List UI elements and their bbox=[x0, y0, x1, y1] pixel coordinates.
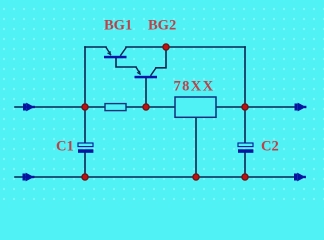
wire: left vertical below C1 bbox=[84, 153, 86, 177]
wire: right vertical drop (top rail to mid rail) bbox=[244, 47, 246, 107]
wire: bottom rail bbox=[15, 176, 295, 178]
wire: BG1 base to BG2 emitter link bbox=[116, 58, 136, 67]
wire: top rail right segment bbox=[126, 46, 245, 48]
svg-text:78XX: 78XX bbox=[174, 78, 215, 94]
wire: BG2 base drop bbox=[145, 78, 147, 107]
junction: 78XX ground pin / bottom rail bbox=[193, 174, 199, 180]
input return port arrow (bottom rail, pointing right) bbox=[23, 173, 35, 182]
svg-text:C2: C2 bbox=[261, 139, 279, 155]
capacitor C2 bbox=[238, 143, 253, 153]
wire: right vertical below C2 bbox=[244, 153, 246, 177]
junction: input rail / C1 branch on middle rail bbox=[82, 104, 88, 110]
svg-text:C1: C1 bbox=[56, 138, 74, 154]
output return port arrow (bottom rail, pointing right) bbox=[294, 173, 306, 182]
wire: right vertical (mid rail to C2) bbox=[244, 107, 246, 143]
wire: middle rail right segment bbox=[216, 106, 296, 108]
wire: left vertical drop (input rail to C1) bbox=[84, 47, 86, 143]
junction: C1 / bottom rail bbox=[82, 174, 88, 180]
junction: C2 / bottom rail bbox=[242, 174, 248, 180]
junction: right vertical / middle rail bbox=[242, 104, 248, 110]
transistor BG2 bbox=[135, 67, 158, 78]
regulator U1 78XX box bbox=[175, 97, 216, 117]
wire: middle rail left segment bbox=[15, 106, 105, 108]
junction: BG2 collector / top rail bbox=[163, 44, 169, 50]
wire: top rail left segment bbox=[85, 46, 106, 48]
svg-text:BG2: BG2 bbox=[148, 18, 176, 34]
junction: BG2 base / middle rail bbox=[143, 104, 149, 110]
resistor (series base resistor) bbox=[105, 104, 126, 111]
input port arrow (middle rail, pointing right) bbox=[23, 103, 35, 112]
transistor BG1 bbox=[104, 47, 127, 58]
wire: middle rail centre segment bbox=[126, 106, 175, 108]
svg-text:BG1: BG1 bbox=[104, 18, 132, 34]
output port arrow (middle rail, pointing right) bbox=[295, 103, 307, 112]
wire: BG2 collector to top rail bbox=[156, 47, 166, 68]
capacitor C1 bbox=[78, 143, 93, 153]
wire: 78XX ground pin drop bbox=[195, 117, 197, 177]
